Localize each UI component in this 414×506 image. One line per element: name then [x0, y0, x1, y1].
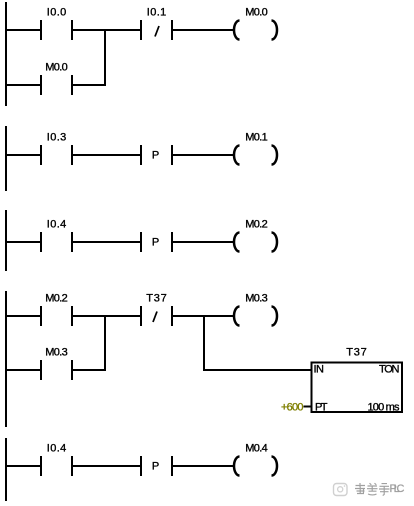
svg-text:M0.0: M0.0	[245, 7, 268, 19]
svg-text:T37: T37	[146, 293, 167, 305]
svg-text:IN: IN	[314, 364, 325, 376]
svg-text:TON: TON	[379, 364, 400, 376]
svg-text:M0.4: M0.4	[245, 443, 268, 455]
svg-text:+600: +600	[281, 402, 304, 414]
svg-text:I0.4: I0.4	[47, 443, 67, 455]
svg-text:P: P	[152, 461, 159, 473]
svg-text:P: P	[152, 237, 159, 249]
svg-text:I0.4: I0.4	[47, 219, 67, 231]
svg-text:M0.2: M0.2	[245, 219, 268, 231]
svg-text:I0.1: I0.1	[147, 7, 167, 19]
svg-text:PT: PT	[315, 402, 328, 414]
svg-text:I0.3: I0.3	[47, 132, 67, 144]
svg-text:PLC: PLC	[390, 483, 405, 495]
svg-text:M0.3: M0.3	[45, 347, 68, 359]
svg-text:M0.1: M0.1	[245, 132, 268, 144]
svg-text:I0.0: I0.0	[47, 7, 67, 19]
svg-text:T37: T37	[346, 347, 367, 359]
svg-text:P: P	[152, 150, 159, 162]
svg-text:M0.2: M0.2	[45, 293, 68, 305]
svg-text:100 ms: 100 ms	[368, 402, 401, 414]
svg-text:M0.3: M0.3	[245, 293, 268, 305]
svg-text:M0.0: M0.0	[45, 62, 68, 74]
